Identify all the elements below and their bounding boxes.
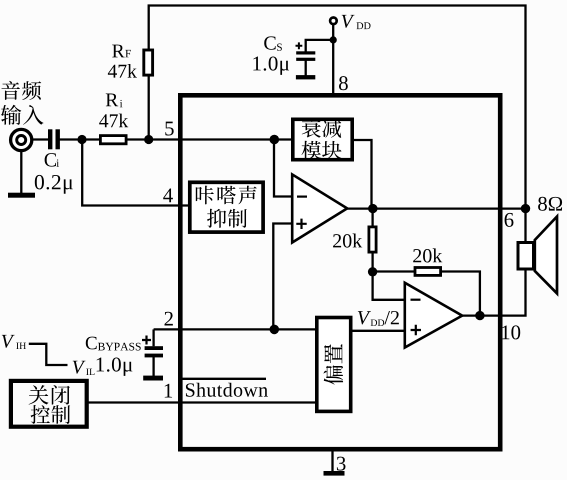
pin 6 [505,213,514,227]
wire: pin 2 node to CBYPASS [152,329,154,346]
label: audio input [1,81,19,100]
op-amp U2 [405,283,462,348]
VDD terminal [330,18,337,25]
input jack [11,129,32,150]
op-amp U1 [292,174,347,242]
pin 2 [165,312,173,326]
wire: VDD node to CS [306,40,334,52]
node junction [270,325,280,335]
wire: op-amp U1 output to pin 6 rail [346,207,526,209]
attenuation module box [293,119,352,159]
node junction [270,135,280,145]
wire: CBYPASS to ground [152,357,154,376]
wire: RF bottom to input node [148,76,150,140]
resistor RF 47k [144,50,153,75]
wire: 20k horizontal to op-amp U2 output [442,272,480,316]
label 8 ohm [538,197,547,211]
label RF [112,45,124,58]
wire: Ri to pin 5 / attenuation module [127,138,292,140]
shutdown control box [11,381,87,427]
label VDD/2 [358,311,371,324]
wire: bias VDD/2 to op-amp U2 non-inverting input [352,330,406,332]
ground (input jack) [8,193,35,198]
pin 3 [337,457,346,471]
wire: CS to ground [305,60,307,75]
label VIL [73,361,86,374]
capacitor Ci [48,129,52,149]
pin 4 [163,189,173,203]
label VDD [342,15,355,28]
wire: op-amp U1 non-inverting input to pin 2 node [273,224,293,330]
node junction [330,36,337,43]
ground (CS) [296,75,315,79]
speaker 8ohm [535,217,557,294]
IC block outline [180,95,500,449]
resistor Ri 47k [100,136,126,144]
wire: pin 2 to bias box [154,328,316,330]
node junction [368,204,377,213]
wire: 20k bottom to node [371,253,373,272]
label Ci [45,153,56,166]
label CS [264,36,275,49]
wire: shutdown control to pin 1 to bias box [88,401,316,403]
wire: node to 20k horizontal [373,270,414,272]
label Ri [106,93,118,106]
wire: pin 3 to ground [331,451,333,472]
resistor 20k horizontal [415,268,441,276]
wire: feedback top rail [149,6,526,209]
node junction [77,135,86,144]
wire: Ci to Ri [60,138,100,140]
label 20k horizontal [413,249,421,262]
resistor 20k vertical [369,227,376,252]
pin 1 [165,384,172,398]
capacitor CS [296,51,315,54]
label CBYPASS [86,337,97,350]
wire: pin 4 [82,140,191,206]
ground (CBYPASS) [143,376,163,381]
bias box [317,318,351,412]
click suppression box [190,182,263,232]
wire: VIH/VIL step waveform [29,344,68,365]
label VIH [2,335,15,348]
label Shutdown (with overline) [186,383,195,396]
wire: op-amp U1 inverting input [274,140,293,197]
node junction [521,204,530,213]
wire: node to op-amp U2 inverting input [373,272,406,300]
ground (pin 3) [324,471,345,476]
wire: jack ground stem [20,151,22,193]
pin 10 [502,325,509,339]
wire: VDD terminal to pin 8 [332,25,334,94]
wire: attenuation module output [353,140,372,209]
pin 5 [165,122,173,136]
capacitor CBYPASS [145,346,163,350]
node junction [144,135,153,144]
label 20k vertical [333,234,341,247]
wire: node to 20k top [371,209,373,226]
wire: pin 6 rail to speaker top [524,209,526,242]
node junction [368,267,377,276]
wire: op-amp U2 output pin 10 to speaker [461,271,526,316]
node junction [475,311,484,320]
wire: jack to Ci [31,138,49,140]
pin 8 [339,76,348,90]
